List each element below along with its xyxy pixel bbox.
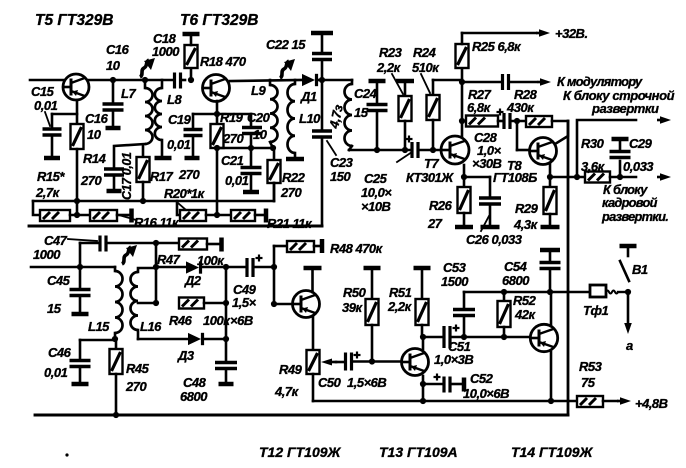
wire y150 to C25: [349, 149, 411, 152]
svg-text:6800: 6800: [502, 273, 530, 288]
diode D3: [188, 333, 226, 345]
label C24: [354, 86, 378, 120]
svg-text:270: 270: [80, 173, 102, 188]
capacitor C53: [453, 292, 475, 337]
svg-text:Д2: Д2: [184, 273, 202, 288]
label T8: [493, 158, 537, 185]
svg-text:15: 15: [47, 301, 62, 316]
wire T14 collector up: [550, 292, 553, 324]
capacitor C26: [479, 198, 501, 227]
resistor R46: [179, 298, 229, 309]
svg-text:R16 11к: R16 11к: [134, 215, 180, 230]
resistor R26: [455, 187, 473, 227]
svg-text:0,01: 0,01: [167, 137, 191, 152]
inductor L8: [155, 80, 172, 158]
svg-text:R51: R51: [389, 285, 412, 300]
capacitor C21: [241, 148, 262, 192]
node row2 mid: [206, 212, 231, 218]
label C22: [266, 37, 306, 52]
svg-text:10: 10: [253, 127, 268, 142]
svg-text:С16: С16: [106, 42, 130, 57]
label C46: [44, 345, 72, 380]
wire T12 base: [274, 303, 292, 306]
transistor T12: [293, 291, 320, 318]
wire input to T5 base: [30, 79, 63, 82]
label R29: [513, 201, 539, 232]
label L8: [167, 92, 182, 107]
svg-text:R15*: R15*: [37, 169, 65, 184]
label L10: [299, 111, 321, 126]
wire C20 top: [217, 114, 251, 126]
label a: [626, 338, 633, 353]
svg-text:3,6к: 3,6к: [581, 159, 606, 174]
wire R22 bottom corner: [273, 183, 276, 201]
label T13 cap value: [434, 352, 473, 367]
wire T7 collector up: [459, 79, 465, 137]
wire D3 row: [138, 338, 188, 341]
wire C45 corner: [77, 243, 83, 270]
svg-text:С23: С23: [330, 155, 354, 170]
wire T8 emitter: [555, 121, 568, 144]
svg-text:R50: R50: [343, 285, 367, 300]
svg-text:С53: С53: [443, 260, 467, 275]
svg-text:0,01: 0,01: [44, 365, 68, 380]
wire C27 to arrow: [509, 81, 536, 84]
label C17 rotated: [120, 152, 134, 200]
arrow +4.8V: [617, 397, 631, 405]
svg-text:R17: R17: [150, 169, 174, 184]
switch V1: [620, 246, 637, 281]
svg-text:ГТ108Б: ГТ108Б: [493, 170, 537, 185]
svg-text:R30: R30: [581, 136, 605, 151]
wire C46 top: [80, 339, 115, 342]
resistor R53: [577, 396, 617, 407]
label R28: [506, 87, 538, 115]
svg-text:Т5 ГТ329В: Т5 ГТ329В: [35, 12, 113, 29]
pointer R23: [392, 74, 403, 94]
svg-text:С20: С20: [247, 110, 271, 125]
svg-text:+4,8В: +4,8В: [635, 396, 668, 411]
label T13 type: [379, 444, 458, 460]
label R50: [342, 285, 367, 315]
wire T14 emitter down: [550, 352, 553, 401]
resistor R27: [462, 116, 498, 127]
resistor R17: [137, 146, 150, 201]
wire +32V rail: [462, 32, 536, 35]
capacitor C52 series: [420, 374, 464, 393]
wire x322 vertical: [321, 60, 324, 129]
svg-text:1500: 1500: [441, 274, 469, 289]
label R16: [134, 215, 180, 230]
svg-text:1,5×6В: 1,5×6В: [347, 375, 386, 390]
capacitor C25 series: [406, 136, 442, 159]
svg-text:R52: R52: [513, 293, 537, 308]
capacitor C22: [311, 33, 333, 60]
resistor R22: [268, 148, 281, 201]
svg-text:С48: С48: [183, 375, 207, 390]
label R27: [467, 87, 492, 115]
transformer Tf1: [590, 285, 631, 297]
svg-text:15: 15: [354, 105, 369, 120]
label C25: [361, 171, 392, 214]
pointer C15: [45, 112, 50, 126]
svg-text:4,3к: 4,3к: [513, 217, 539, 232]
wire output a: [624, 292, 632, 334]
label D1: [300, 89, 317, 104]
resistor R19: [211, 114, 224, 148]
transistor T13: [402, 349, 429, 376]
capacitor C20: [242, 128, 262, 149]
svg-text:С47: С47: [44, 233, 68, 248]
pointer C26: [481, 216, 489, 231]
wire T8 collector down: [547, 164, 553, 180]
svg-text:×6В: ×6В: [230, 313, 253, 328]
label +4.8V: [635, 396, 668, 411]
resistor R18: [183, 34, 200, 83]
wire emitter node left: [193, 113, 217, 116]
label C47: [33, 233, 68, 262]
svg-text:С52: С52: [470, 371, 494, 386]
capacitor C17: [104, 169, 124, 191]
svg-text:R49: R49: [279, 362, 303, 377]
label C48: [180, 375, 208, 404]
capacitor C27 series: [503, 74, 509, 90]
wire long vertical right: [567, 121, 570, 415]
label C23: [330, 155, 354, 184]
transistor T8: [530, 138, 557, 165]
label Dr3 rotated: [326, 103, 346, 131]
label C21: [221, 153, 249, 188]
wire y201 long: [33, 198, 274, 204]
wire T13 base: [372, 360, 401, 363]
svg-text:R25 6,8к: R25 6,8к: [472, 39, 522, 54]
svg-text:4,7к: 4,7к: [274, 384, 300, 399]
wire T12 collector bar: [304, 268, 322, 292]
svg-text:а: а: [626, 338, 633, 353]
rail y415: [35, 414, 568, 417]
svg-text:39к: 39к: [342, 300, 363, 315]
svg-text:С25: С25: [364, 171, 388, 186]
label T7: [406, 156, 454, 185]
svg-text:Т6 ГТ329В: Т6 ГТ329В: [180, 12, 258, 29]
svg-text:×10В: ×10В: [361, 199, 391, 214]
svg-text:R24: R24: [413, 45, 437, 60]
label +32V: [555, 26, 588, 41]
svg-text:С15: С15: [31, 84, 55, 99]
label C53: [441, 260, 469, 289]
svg-text:R48 470к: R48 470к: [330, 241, 384, 256]
wire x274 vertical: [271, 246, 277, 307]
wire T13 emitter: [422, 376, 425, 401]
svg-text:R22: R22: [282, 170, 306, 185]
label R21: [267, 216, 313, 231]
resistor R45: [110, 340, 123, 418]
svg-text:С21: С21: [221, 153, 244, 168]
capacitor C49 series: [247, 255, 277, 278]
svg-text:С46: С46: [48, 345, 72, 360]
svg-text:1000: 1000: [152, 44, 180, 59]
svg-text:27: 27: [427, 216, 443, 231]
capacitor C19: [184, 114, 203, 158]
wire R48 feed: [274, 245, 287, 248]
resistor R52: [498, 292, 511, 337]
svg-text:10: 10: [87, 127, 102, 142]
svg-text:10,0×: 10,0×: [361, 185, 392, 200]
wire row1 feed: [33, 201, 40, 215]
resistor R49: [307, 350, 337, 374]
svg-text:0,01: 0,01: [225, 173, 249, 188]
label R14: [80, 151, 107, 188]
svg-text:270: 270: [222, 131, 244, 146]
label T14 type: [511, 444, 594, 460]
label R45: [125, 361, 150, 394]
label R53: [579, 359, 603, 390]
resistor R21: [231, 209, 266, 223]
label C16 value top: [106, 42, 130, 73]
resistor R48: [287, 239, 322, 253]
svg-text:R53: R53: [579, 359, 603, 374]
wire row2 feed: [177, 201, 180, 215]
svg-text:1000: 1000: [33, 247, 61, 262]
svg-text:×30В: ×30В: [472, 156, 502, 171]
svg-text:L15: L15: [88, 319, 110, 334]
svg-text:Д1: Д1: [300, 89, 317, 104]
svg-text:0,033: 0,033: [623, 159, 654, 174]
resistor R28: [526, 116, 552, 127]
label C19: [167, 112, 192, 152]
capacitor C23: [312, 131, 332, 226]
adjust arrow D1: [280, 59, 295, 78]
capacitor C51 series: [423, 325, 530, 349]
resistor R15: [40, 210, 70, 221]
label R48: [330, 241, 384, 256]
inductor L15: [112, 267, 123, 342]
label L15: [88, 319, 110, 334]
svg-text:С17 0,01: С17 0,01: [120, 152, 134, 200]
svg-text:+32В.: +32В.: [555, 26, 588, 41]
label C20: [247, 110, 271, 142]
wire R19 bias down: [216, 148, 219, 215]
pointer R16: [119, 215, 136, 220]
wire L7 bottom to C17: [114, 144, 145, 167]
capacitor C46: [70, 340, 91, 384]
svg-text:R20*1к: R20*1к: [164, 186, 206, 201]
svg-text:2,7к: 2,7к: [35, 185, 61, 200]
capacitor C48: [215, 363, 237, 385]
wire y148 row: [214, 145, 273, 151]
svg-text:R46: R46: [169, 313, 193, 328]
inductor L7: [145, 80, 153, 144]
svg-text:2,2к: 2,2к: [387, 299, 413, 314]
pointer R24: [421, 74, 430, 93]
label L16: [140, 319, 162, 334]
label C18: [152, 31, 180, 59]
svg-text:Т7: Т7: [424, 156, 439, 171]
svg-text:С16: С16: [85, 111, 109, 126]
adjust arrow L8: [140, 58, 155, 77]
capacitor C45: [70, 267, 91, 314]
label R47: [157, 252, 225, 268]
label R23: [376, 45, 403, 75]
arrow k modulyatoru: [537, 78, 551, 86]
resistor R16: [90, 209, 132, 223]
svg-text:К модулятору: К модулятору: [557, 74, 643, 89]
label C45: [47, 273, 71, 316]
wire x226 vertical: [223, 267, 229, 361]
capacitor C28 series: [497, 109, 527, 130]
resistor R51: [414, 268, 431, 340]
node junction at L7 top: [142, 77, 148, 83]
label C49: [230, 282, 257, 328]
label C26: [466, 232, 523, 247]
label C28: [472, 130, 502, 171]
svg-text:В1: В1: [632, 262, 648, 277]
svg-text:R47: R47: [157, 252, 181, 267]
inductor Dr3: [345, 80, 353, 150]
pointer R20: [178, 203, 186, 210]
wire x156 vertical: [153, 243, 159, 306]
label T12 type: [259, 444, 342, 460]
svg-text:С22 15: С22 15: [266, 37, 306, 52]
label R49: [274, 362, 303, 399]
wire R30 to arrow: [610, 174, 636, 180]
resistor R25: [456, 33, 469, 82]
svg-text:С54: С54: [504, 259, 528, 274]
label k bloku strochnoy: [563, 88, 675, 116]
adjust arrow L15: [122, 245, 137, 264]
wire T5 collector to C18: [89, 79, 173, 82]
label C52: [463, 371, 509, 401]
label R46: [169, 313, 231, 328]
svg-text:6,8к: 6,8к: [467, 100, 492, 115]
inductor L16: [131, 268, 156, 339]
svg-text:10: 10: [106, 58, 121, 73]
svg-text:2,2к: 2,2к: [376, 60, 402, 75]
wire y292: [464, 289, 590, 295]
node junction at C16 top: [110, 77, 116, 83]
capacitor C15: [43, 114, 78, 158]
capacitor C50 series: [336, 352, 375, 371]
svg-text:L8: L8: [167, 92, 182, 107]
svg-text:кадровой: кадровой: [602, 195, 658, 210]
label R22: [280, 170, 306, 200]
wire D2 row: [156, 266, 186, 269]
svg-text:75: 75: [581, 375, 596, 390]
label k bloku kadrovoy: [601, 182, 668, 224]
svg-text:С50: С50: [318, 375, 342, 390]
node x322 top junction: [319, 77, 325, 83]
label L7: [121, 86, 136, 101]
svg-text:L7: L7: [121, 86, 136, 101]
label R19: [220, 110, 244, 146]
arrow k bloku kadrovoy: [657, 173, 671, 181]
wire T6 emitter: [214, 101, 220, 117]
svg-text:С19: С19: [168, 112, 192, 127]
svg-text:R14: R14: [83, 151, 107, 166]
wire L16 tap: [138, 302, 156, 305]
capacitor C16: [103, 80, 124, 128]
transistor T7: [441, 136, 469, 164]
wire T5 emitter: [76, 100, 79, 124]
pointer C23: [327, 141, 336, 155]
capacitor C54: [540, 250, 561, 292]
capacitor C24: [367, 81, 388, 153]
svg-text:Д3: Д3: [177, 348, 195, 363]
label R18: [200, 54, 247, 69]
label R17: [150, 167, 200, 184]
svg-text:Т13 ГТ109А: Т13 ГТ109А: [379, 444, 458, 460]
label Tf1: [583, 303, 608, 318]
svg-text:R21 11к: R21 11к: [267, 216, 313, 231]
svg-text:С51: С51: [448, 339, 471, 354]
svg-text:развертки.: развертки.: [601, 209, 668, 224]
svg-text:С24: С24: [354, 86, 378, 101]
inductor L9: [270, 80, 278, 151]
svg-text:R29: R29: [515, 201, 539, 216]
wire T7 emitter down: [461, 165, 467, 187]
svg-text:270: 270: [125, 379, 147, 394]
label R51: [387, 285, 413, 314]
ink speck: [65, 453, 68, 456]
resistor R24: [427, 80, 440, 153]
label R24: [412, 45, 440, 75]
wire to C26: [464, 177, 490, 196]
svg-text:КТ301Ж: КТ301Ж: [406, 170, 454, 185]
svg-text:R19: R19: [220, 110, 244, 125]
svg-text:1,5×: 1,5×: [232, 295, 257, 310]
label C54: [502, 259, 530, 288]
svg-text:6800: 6800: [180, 389, 208, 404]
label T6 type: [180, 12, 258, 29]
resistor R20: [180, 210, 206, 221]
arrow +32V: [536, 29, 550, 37]
wire T6 collector right: [230, 80, 302, 81]
svg-text:R26: R26: [429, 198, 453, 213]
wire R28 right: [552, 120, 568, 123]
arrow strochnoy: [657, 116, 671, 124]
label R15: [35, 169, 65, 200]
label C29: [623, 136, 654, 174]
diode D1: [302, 74, 322, 86]
node row1 mid: [70, 212, 90, 218]
svg-text:10,0×6В: 10,0×6В: [463, 386, 509, 401]
wire R49 bottom corner: [312, 374, 315, 401]
svg-text:Т14 ГТ109Ж: Т14 ГТ109Ж: [511, 444, 594, 460]
wire C28 to T8 base: [517, 121, 529, 150]
svg-text:развертки: развертки: [591, 101, 659, 116]
capacitor C18 series: [175, 73, 186, 89]
wire T12 emitter: [312, 316, 315, 350]
label R26: [427, 198, 453, 231]
pointer C47: [68, 239, 97, 241]
transistor T6: [203, 75, 230, 102]
wire to C27: [462, 81, 501, 84]
wire y401 long: [313, 398, 577, 404]
svg-text:Т12 ГТ109Ж: Т12 ГТ109Ж: [259, 444, 342, 460]
resistor R50: [364, 268, 381, 361]
svg-text:L16: L16: [140, 319, 162, 334]
label C16 second: [85, 111, 109, 142]
label L9: [251, 83, 266, 98]
svg-text:L9: L9: [251, 83, 266, 98]
wire y177 T8 row: [550, 174, 585, 180]
wire D1 to Dr3: [322, 79, 352, 82]
label R30: [581, 136, 606, 174]
pointer C25: [397, 152, 412, 162]
resistor R23: [396, 81, 414, 153]
capacitor C29: [610, 139, 631, 177]
svg-text:Тф1: Тф1: [583, 303, 608, 318]
